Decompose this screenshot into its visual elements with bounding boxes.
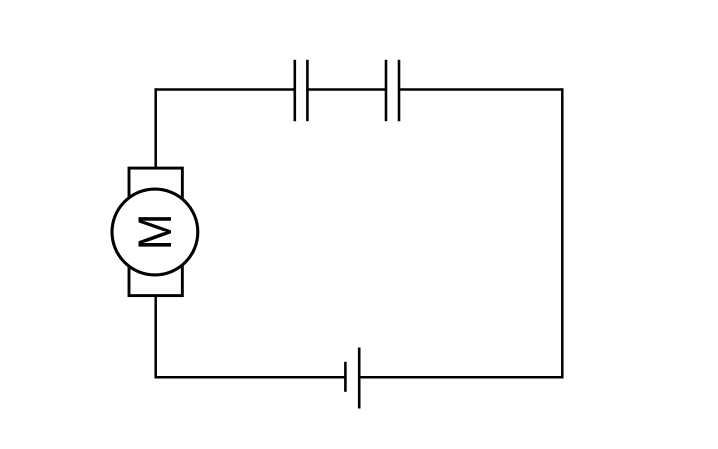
- wire left-lower segment (motor bottom to bottom-left corner): [154, 296, 157, 379]
- wire bottom-right segment (battery long plate to bottom-right corner): [359, 376, 563, 379]
- capacitor C2 left plate: [385, 60, 388, 121]
- motor M body rectangle: [129, 168, 182, 296]
- motor M circle: [112, 189, 198, 275]
- wire bottom-left segment (bottom-left corner to battery short plate): [155, 376, 346, 379]
- wire right segment (top-right corner to bottom-right corner): [561, 88, 564, 378]
- svg-text:M: M: [128, 213, 182, 250]
- battery cell long plate (positive): [358, 348, 361, 409]
- battery cell short plate (negative): [344, 362, 347, 392]
- capacitor C1 right plate: [306, 60, 309, 121]
- wire top-middle segment (C1 to C2): [307, 88, 386, 91]
- wire top-right segment (C2 to top-right corner): [399, 88, 562, 91]
- wire left-upper segment (top-left corner to motor top): [154, 88, 157, 168]
- capacitor C2 right plate: [398, 60, 401, 121]
- capacitor C1 left plate: [293, 60, 296, 121]
- wire top-left segment (top-left corner to C1 left plate): [156, 88, 295, 91]
